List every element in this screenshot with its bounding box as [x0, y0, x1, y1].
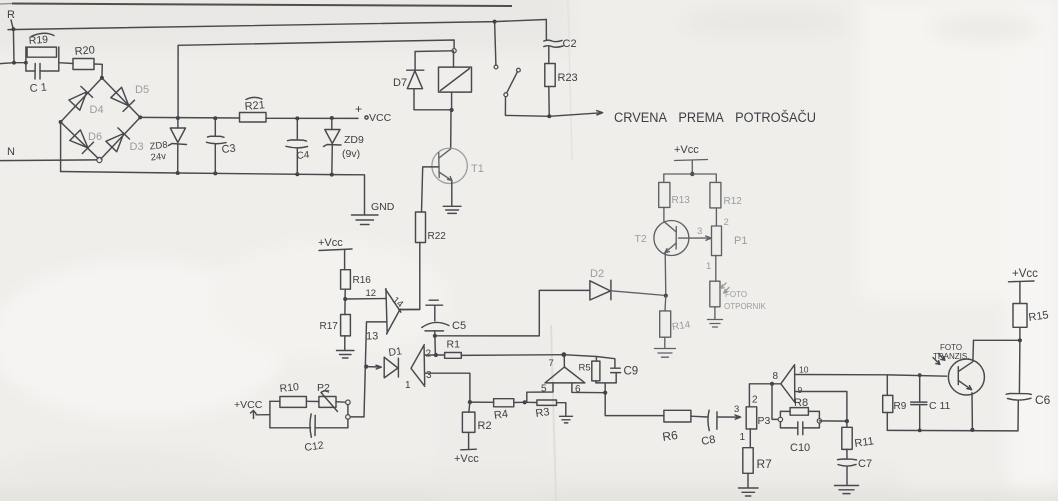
diode D5	[111, 84, 149, 111]
node ZD8 top	[176, 116, 180, 120]
wire R13 to T2 collector	[663, 207, 665, 221]
node Vcc bracket junction	[690, 172, 694, 176]
wire U3 feedback bottom	[596, 383, 616, 393]
resistor R23	[545, 64, 578, 115]
wire switch to CRVENA arrow	[505, 97, 602, 117]
svg-text:+Vcc: +Vcc	[454, 453, 479, 465]
diode D3	[106, 128, 144, 153]
switch pole 2	[517, 68, 521, 72]
node D1 input junction	[364, 365, 368, 369]
diode D4	[69, 86, 104, 116]
node P2 right terminal	[346, 400, 351, 405]
svg-text:8: 8	[773, 371, 779, 382]
capacitor C3	[207, 118, 237, 173]
svg-text:R3: R3	[535, 406, 551, 420]
node R1/U3 top junction	[562, 352, 567, 357]
resistor R11	[842, 421, 875, 458]
wire relay junction down to T1 collector	[450, 111, 452, 148]
svg-text:R13: R13	[672, 195, 691, 206]
node ZD9 bottom	[330, 173, 334, 177]
switch arm	[507, 72, 518, 93]
svg-text:P2: P2	[317, 382, 330, 394]
capacitor C1	[26, 64, 59, 95]
svg-text:R1: R1	[447, 339, 461, 351]
svg-text:12: 12	[366, 288, 377, 299]
wire D7 top stem	[414, 52, 416, 71]
wire C5 junction to D2	[435, 290, 590, 336]
node R11 top	[845, 419, 849, 423]
capacitor C11	[911, 373, 951, 430]
node +Vcc under R2	[454, 449, 479, 465]
wire U1 pin 13	[364, 322, 387, 417]
ground under R3	[560, 416, 573, 423]
node C5 bottom junction	[433, 334, 437, 338]
node relay coil bottom junction	[450, 108, 454, 112]
svg-text:6: 6	[575, 384, 581, 395]
svg-text:R6: R6	[661, 428, 678, 444]
wire U1 output to R22	[400, 309, 420, 311]
capacitor C7	[838, 458, 873, 485]
resistor R17	[320, 315, 351, 336]
wire junction up to C5	[434, 336, 437, 355]
svg-text:R16: R16	[353, 275, 372, 286]
wire bracket over D7 and relay	[415, 50, 452, 53]
svg-text:D3: D3	[130, 141, 144, 153]
node C11 bottom	[918, 429, 922, 433]
svg-text:C9: C9	[624, 366, 639, 378]
svg-text:+Vcc: +Vcc	[674, 144, 699, 156]
svg-text:13: 13	[366, 331, 378, 343]
wire R10/C12 left node	[269, 401, 271, 428]
svg-text:GND: GND	[371, 201, 395, 213]
svg-text:R2: R2	[478, 420, 492, 432]
capacitor C12	[270, 414, 348, 454]
wire left input to R19/C1	[0, 62, 26, 65]
wire C12 node to pin13 vertical	[350, 416, 364, 418]
wire U2 pin2	[424, 354, 436, 356]
wire D7 bottom to bracket	[414, 89, 452, 110]
scan top edge	[12, 4, 512, 7]
node R15/C6 junction	[1018, 338, 1022, 342]
node left of R19	[12, 61, 16, 65]
wire R12 to P1	[715, 208, 717, 226]
node emitter bottom	[970, 428, 974, 432]
wire to U1 pin 12	[345, 298, 386, 301]
svg-text:FOTO: FOTO	[940, 343, 962, 352]
svg-text:R7: R7	[757, 457, 773, 471]
svg-text:C2: C2	[563, 38, 577, 50]
svg-text:C8: C8	[700, 434, 716, 448]
transistor T2	[635, 221, 689, 256]
op-amp U1 pins 12/13/14	[366, 288, 406, 343]
svg-text:3: 3	[426, 370, 432, 381]
svg-text:R8: R8	[794, 397, 808, 409]
wire R22 to U1 output	[399, 243, 420, 310]
svg-text:R9: R9	[894, 401, 907, 412]
ground symbol GND	[352, 201, 395, 225]
wire U3 pin6	[572, 383, 605, 393]
wire R19 to R20	[59, 62, 73, 65]
node C3 bottom	[213, 171, 217, 175]
wire bridge output + rail	[140, 117, 358, 118]
resistor R14	[660, 296, 692, 348]
wire ground rail	[61, 172, 365, 215]
svg-text:C 1: C 1	[29, 82, 47, 95]
diode D1	[384, 345, 403, 378]
op-amp U3 pins 5/6/7	[541, 358, 585, 395]
node R2/R4 junction	[468, 400, 472, 404]
svg-text:9: 9	[798, 385, 803, 395]
wire rail to switch	[495, 22, 496, 65]
wire P1 bottom to photoresistor	[715, 256, 717, 282]
svg-text:D1: D1	[388, 345, 403, 359]
svg-text:5: 5	[541, 384, 547, 395]
wire R20 to bridge top corner	[94, 64, 102, 78]
svg-text:T2: T2	[635, 233, 647, 245]
wire output node to R11	[819, 420, 847, 422]
photoresistor FOTO OTPORNIK	[710, 281, 767, 311]
capacitor C10	[780, 422, 819, 454]
svg-text:3: 3	[734, 404, 739, 415]
trimmer P2	[306, 382, 345, 412]
resistor R21	[240, 97, 267, 122]
node ZD9 top	[330, 116, 334, 120]
svg-text:C3: C3	[221, 143, 236, 156]
svg-text:C7: C7	[858, 458, 872, 470]
capacitor C2	[544, 38, 577, 64]
resistor R22	[416, 212, 447, 243]
svg-text:D6: D6	[88, 131, 102, 143]
paper crease	[551, 325, 556, 501]
svg-text:+VCC: +VCC	[234, 399, 263, 411]
svg-text:24v: 24v	[150, 151, 167, 164]
op-amp U4 pins 8/9/10	[773, 365, 809, 403]
zener ZD8 24V	[149, 118, 186, 173]
wire junction down to R6	[605, 393, 664, 416]
diode D6	[70, 130, 102, 154]
svg-text:2: 2	[724, 217, 729, 228]
resistor R8	[780, 397, 819, 419]
transistor T1	[432, 148, 484, 205]
node C4 bottom	[295, 172, 299, 176]
svg-text:R: R	[7, 9, 15, 21]
wire top rail from R to C2 corner	[8, 20, 546, 30]
svg-text:+Vcc: +Vcc	[1012, 268, 1038, 280]
diode D7	[393, 70, 424, 89]
wire T2 emitter down	[664, 254, 667, 296]
wire right node verticals	[347, 405, 349, 428]
svg-text:C10: C10	[790, 442, 810, 454]
wire +24 rail up to relay feed	[178, 40, 454, 118]
node +Vcc top right	[1009, 268, 1039, 304]
wire collector to R15 node	[974, 339, 1020, 341]
node C4 top	[295, 116, 299, 120]
svg-text:R12: R12	[724, 196, 743, 207]
svg-text:R5: R5	[579, 363, 591, 374]
wire drop from rail end to C2	[545, 20, 547, 41]
node R8/C10 right terminal	[817, 419, 821, 423]
svg-text:VCC: VCC	[369, 112, 392, 124]
resistor R13	[659, 182, 691, 207]
wire R16 to R17	[344, 289, 346, 314]
svg-text:1: 1	[740, 432, 746, 443]
svg-text:P1: P1	[734, 235, 747, 247]
svg-text:1: 1	[405, 380, 411, 391]
svg-text:D5: D5	[135, 84, 149, 96]
svg-text:R22: R22	[428, 231, 447, 242]
svg-text:D7: D7	[393, 77, 407, 89]
ground under T1	[443, 206, 461, 213]
svg-text:10: 10	[799, 365, 809, 375]
node +VCC feed lower left	[234, 399, 270, 419]
resistor R4	[470, 399, 525, 422]
node pin6/R5C9 junction	[603, 391, 607, 395]
svg-text:R17: R17	[320, 321, 339, 332]
node T2 emitter / R14 junction	[664, 294, 668, 298]
svg-text:1: 1	[706, 261, 711, 272]
resistor R3	[525, 400, 566, 420]
ground under R7	[739, 488, 759, 496]
wire U4 output pin10 to photo transistor	[795, 375, 947, 377]
svg-text:C5: C5	[452, 320, 466, 332]
node +Vcc supply for U1	[318, 237, 352, 270]
node R8/C10 left terminal	[778, 417, 782, 421]
svg-text:N: N	[7, 146, 15, 158]
op-amp U2 pins 1/2/3	[405, 345, 432, 391]
svg-text:C4: C4	[296, 150, 310, 162]
svg-text:(9v): (9v)	[342, 148, 360, 160]
switch pole 1	[494, 65, 498, 69]
resistor R10	[270, 381, 307, 407]
node bridge bottom corner	[97, 157, 102, 162]
resistor R12	[710, 182, 742, 208]
node +VCC 24V rail end	[355, 102, 392, 124]
node U1 pin12 tap	[343, 297, 347, 301]
resistor R15	[1013, 304, 1049, 341]
node U4 input / feedback junction	[770, 382, 774, 386]
node C12 right terminal	[346, 415, 351, 420]
svg-text:D2: D2	[590, 268, 604, 280]
wire arrow C8 to P3 pin3	[717, 415, 740, 419]
svg-text:C 11: C 11	[929, 400, 951, 412]
wire U2 pin3 down to R2 node	[425, 373, 470, 402]
node R4/R3/pin5 junction	[523, 400, 527, 404]
svg-text:2: 2	[752, 395, 758, 406]
svg-text:C6: C6	[1035, 393, 1051, 407]
switch common terminal	[504, 93, 508, 97]
wire bracket to R13/R12	[664, 174, 717, 182]
svg-text:OTPORNIK: OTPORNIK	[724, 302, 766, 311]
svg-text:T1: T1	[471, 163, 484, 175]
wire U3 pin5	[525, 383, 553, 402]
resistor R2	[462, 402, 491, 449]
ground under R17	[337, 336, 355, 358]
svg-text:R21: R21	[244, 99, 265, 113]
resistor R7	[743, 448, 772, 487]
svg-text:R4: R4	[493, 408, 509, 422]
node junction top rail to switch	[493, 20, 497, 24]
wire U3 apex stem	[563, 355, 565, 367]
wire arrow into D1	[366, 365, 381, 369]
potentiometer P1	[706, 217, 747, 272]
node junction at R input	[11, 27, 15, 31]
node N (neutral input)	[7, 146, 15, 158]
resistor R9	[883, 375, 907, 431]
svg-text:FOTO: FOTO	[725, 290, 747, 299]
svg-text:ZD9: ZD9	[344, 134, 364, 146]
wire U3 top node to R5/C9	[564, 355, 615, 368]
wire from top rail down to R19 input line	[12, 29, 15, 63]
ground under C7	[835, 486, 859, 494]
capacitor C6	[1006, 340, 1050, 431]
potentiometer P3	[734, 395, 771, 444]
node bridge right corner	[138, 115, 142, 119]
wire P3 wiper up to U4 input	[749, 384, 780, 407]
capacitor C5 with ground above	[422, 300, 466, 336]
resistor R20	[73, 44, 95, 69]
resistor R19	[26, 33, 59, 71]
svg-text:CRVENA PREMA POTROŠAČU: CRVENA PREMA POTROŠAČU	[614, 110, 816, 125]
capacitor C8	[700, 410, 717, 448]
wire N line	[0, 159, 97, 162]
ground under photoresistor	[708, 307, 723, 327]
svg-text:P3: P3	[758, 415, 771, 427]
node pin2/R1/C5 junction	[434, 353, 438, 357]
node bridge top corner	[100, 76, 104, 80]
relay K1 coil	[439, 51, 472, 110]
wire bottom rail right stage	[887, 429, 1018, 432]
resistor R6	[661, 410, 707, 444]
node relay feed terminal	[452, 49, 456, 53]
svg-text:R20: R20	[74, 44, 95, 58]
resistor R1	[436, 339, 564, 359]
capacitor C9	[611, 366, 639, 383]
node C3 top	[213, 116, 217, 120]
node bridge left corner	[59, 120, 63, 124]
svg-text:7: 7	[549, 358, 554, 369]
node +Vcc T2 stage	[674, 144, 708, 174]
node R23 bottom junction	[547, 114, 551, 118]
resistor R5	[579, 357, 600, 383]
svg-text:2: 2	[426, 349, 432, 360]
node R (phase input label)	[7, 9, 15, 28]
diode D2	[590, 268, 611, 300]
node ZD8 bottom	[176, 171, 180, 175]
wire U4 pin9 to output node	[795, 392, 847, 422]
photo transistor FOTO TRANZIS	[933, 340, 984, 430]
svg-text:R23: R23	[558, 72, 578, 84]
resistor R16	[341, 270, 372, 290]
wire P3 bottom to R7	[749, 429, 751, 448]
wire D2 to T2 emitter node	[611, 291, 666, 296]
svg-text:3: 3	[697, 226, 702, 237]
wire feedback from input node	[772, 384, 778, 420]
svg-text:D4: D4	[90, 104, 104, 116]
zener ZD9 9V	[324, 118, 364, 175]
wire bridge left corner down to ground rail	[60, 122, 62, 172]
wire T1 base	[422, 167, 439, 212]
wire bridge edges	[61, 78, 141, 159]
wire T2 base arrow to P1 wiper	[679, 236, 712, 240]
svg-text:R10: R10	[279, 381, 300, 395]
capacitor C4	[286, 118, 310, 174]
ground under R14	[655, 349, 676, 358]
svg-text:+: +	[355, 102, 362, 116]
svg-text:+Vcc: +Vcc	[318, 237, 343, 249]
